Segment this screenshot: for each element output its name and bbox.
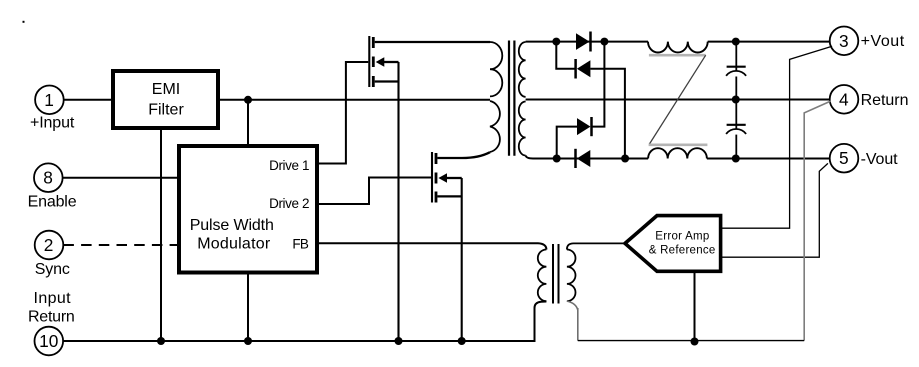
wire sense Return gray [804, 101, 830, 340]
terminal 2 [35, 231, 64, 260]
wire -V rail to terminal 5 [707, 158, 830, 160]
wire D2 anode down to -V rail [590, 69, 625, 159]
node dot D [621, 155, 629, 163]
node dot Q2 source on rail [458, 337, 466, 345]
diode D4 [576, 149, 591, 168]
node junction EMI-PWM [244, 96, 252, 104]
capacitor C2 [726, 100, 746, 159]
diode D1 [576, 32, 591, 52]
svg-text:Pulse Width: Pulse Width [190, 217, 274, 234]
node dot Q1 source on rail [395, 337, 403, 345]
node dot A secondary top [552, 38, 560, 46]
label Input Return [28, 290, 75, 326]
transistor Q2 MOSFET [432, 152, 490, 203]
node dot C secondary bottom [553, 155, 561, 163]
wire T2 secondary lead down gray [577, 308, 579, 341]
node dot EMI down on rail [157, 337, 165, 345]
wire bottom return rail right [578, 340, 804, 342]
wire bottom input return rail [63, 302, 546, 342]
node dot B [600, 38, 608, 46]
node dot PWM ground on rail [244, 337, 252, 345]
wire PWM bottom to rail [247, 275, 249, 342]
PWM box U1 [179, 146, 317, 273]
svg-text:Drive 2: Drive 2 [269, 196, 309, 211]
node dot cap top [732, 38, 740, 46]
svg-text:2: 2 [44, 235, 54, 255]
coupling diagonal Z [649, 55, 706, 144]
svg-text:Return: Return [861, 92, 909, 109]
wire junction down to PWM top [247, 100, 249, 144]
svg-text:3: 3 [839, 31, 849, 51]
wire error amp ground pin [694, 273, 696, 342]
svg-text:+Vout: +Vout [861, 33, 905, 50]
transformer T1 secondary winding [519, 42, 526, 156]
inductor L2 bottom [648, 148, 707, 158]
svg-text:8: 8 [43, 168, 53, 188]
svg-text:Enable: Enable [28, 194, 77, 211]
wire dot B down to D3 cathode [592, 42, 604, 127]
wire secondary bottom lead [526, 156, 649, 159]
svg-text:Error Amp: Error Amp [655, 230, 709, 242]
wire secondary center tap Return rail [526, 99, 830, 101]
wire Enable to PWM [63, 177, 177, 179]
transformer T1 primary winding [490, 42, 502, 152]
wire T2 secondary top lead [567, 243, 625, 249]
wire terminal1 to EMI [64, 99, 111, 101]
wire EMI output rail to transformer primary center tap [220, 99, 490, 101]
svg-text:Input: Input [34, 290, 72, 307]
wire D3 anode to dot C [557, 127, 577, 159]
wire Drive 2 to Q2 gate [319, 178, 431, 205]
transformer T2 core [553, 244, 559, 304]
coupled core bar top (gray) [649, 54, 706, 57]
wire +V rail top [556, 41, 648, 43]
svg-text:& Reference: & Reference [649, 245, 716, 257]
svg-text:EMI: EMI [152, 81, 180, 98]
wire sense +Vout to error amp [722, 46, 832, 228]
terminal 1 [35, 86, 64, 115]
svg-text:FB: FB [292, 237, 309, 252]
coupled core bar bottom (gray) [649, 144, 708, 147]
transformer T2 secondary [567, 250, 576, 302]
wire Q2 source to rail [461, 178, 463, 341]
capacitor C1 [726, 42, 746, 100]
wire FB to feedback transformer primary [319, 243, 546, 249]
svg-text:+Input: +Input [30, 115, 75, 132]
wire dot A down to D2 cathode [556, 42, 575, 69]
wire secondary top lead [526, 41, 557, 43]
node dot error amp ground [691, 338, 699, 346]
svg-text:Sync: Sync [35, 261, 70, 278]
diode D2 [576, 59, 591, 79]
svg-text:Drive 1: Drive 1 [269, 158, 309, 173]
svg-text:10: 10 [39, 331, 58, 351]
transistor Q1 MOSFET [369, 36, 490, 87]
wire +V rail to terminal 3 [708, 41, 830, 43]
node dot cap bottom [732, 155, 740, 163]
svg-text:1: 1 [44, 90, 54, 110]
terminal 5 [830, 144, 859, 173]
terminal 4 [830, 85, 859, 114]
wire T2 secondary bottom lead [567, 301, 578, 310]
terminal 3 [830, 27, 859, 56]
svg-text:5: 5 [839, 148, 849, 168]
wire EMI bottom to rail [160, 130, 162, 341]
svg-text:4: 4 [839, 89, 849, 109]
wire Q1 source to rail [397, 62, 399, 341]
svg-text:-Vout: -Vout [861, 151, 899, 168]
wire sense -Vout to error amp [722, 163, 828, 257]
diode D3 [577, 117, 592, 136]
terminal 10 [35, 327, 64, 356]
error amp U2 pentagon [625, 216, 721, 272]
wire Drive 1 to Q1 gate [319, 62, 368, 164]
stray dot top-left [23, 21, 25, 23]
EMI Filter box U-EMI [113, 71, 218, 128]
node dot cap mid [732, 96, 740, 104]
wire dashed Sync to PWM [63, 244, 177, 246]
inductor L1 top [648, 42, 708, 53]
terminal 8 [34, 163, 63, 192]
transformer T2 feedback primary [538, 250, 547, 302]
svg-text:Modulator: Modulator [197, 236, 271, 253]
svg-text:Filter: Filter [148, 102, 184, 119]
svg-text:Return: Return [28, 308, 75, 325]
transformer T1 core [509, 41, 514, 156]
